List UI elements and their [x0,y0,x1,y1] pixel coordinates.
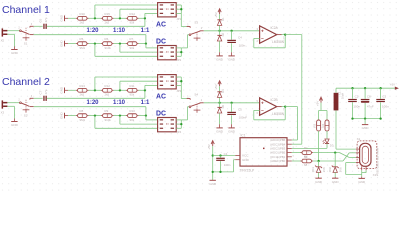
svg-text:GND: GND [60,86,64,94]
wire shield [361,170,363,176]
capacitor C3 100n [376,99,385,100]
wire [68,89,76,91]
wire [231,103,233,112]
svg-text:X1: X1 [357,137,361,141]
resistor R16 [76,17,78,19]
wire [176,84,181,86]
resistor R2 [300,160,302,162]
svg-text:GND: GND [362,126,370,130]
wire [334,172,336,177]
svg-text:47uF: 47uF [367,105,374,109]
wire down to ground [13,34,15,46]
capacitor C1 100n [216,158,225,159]
wire [114,43,126,45]
wire D- crossover [343,153,349,161]
svg-text:GND: GND [358,180,366,184]
svg-text:GND: GND [11,123,19,127]
svg-text:GND: GND [228,58,236,62]
wire AC to S3 [181,26,186,28]
svg-text:X3: X3 [1,111,5,115]
capacitor C5 100nF [227,112,236,113]
wire X2 pin2 to ground [7,33,14,35]
svg-text:9M1: 9M1 [80,118,86,122]
wire DC to S4 [188,106,190,108]
wire +5V rail [336,87,395,89]
resistor R1 [300,152,302,154]
svg-text:GND: GND [60,14,64,22]
svg-text:GND: GND [11,51,19,55]
svg-text:JP4: JP4 [176,130,181,134]
svg-text:LM358N: LM358N [272,112,285,116]
wire [176,119,181,121]
svg-text:ZD1: ZD1 [311,167,315,173]
wire DC up [187,107,189,120]
wire 1:20 to DC jumper [95,127,158,129]
svg-text:100n: 100n [224,163,231,167]
wire 1:10 to DC jumper [120,51,158,53]
wire ch1 output [285,34,302,36]
pin VCC [235,155,240,157]
capacitor C4 100n [227,40,236,41]
+5V supply (USB pull-up) [319,97,322,100]
svg-text:1:10: 1:10 [113,28,126,34]
node 1:1 (DC) [145,42,147,44]
wire down to ground [13,106,15,118]
wire C2 top [352,88,354,99]
junction op-amp output [284,105,286,107]
wire D+ crossover [340,153,350,158]
wire to ZD2 [334,153,336,167]
junction C5 tap [230,102,232,104]
junction C2 [351,87,353,89]
wire USB gnd [346,162,356,164]
node 1:20 (DC) [94,42,96,44]
wire 1:20 drop [94,116,96,129]
junction [351,117,353,119]
wire S4 to op-amp +in [204,102,260,104]
inductor L1 (ferrite) [334,93,339,111]
pin USB 162.6 [356,162,360,164]
wire DC up [187,35,189,48]
wire [219,98,221,103]
svg-text:X2: X2 [1,39,5,43]
switch S2 (input select) [20,102,22,104]
wire D- line [313,160,343,162]
wire +5V / gnd column [212,146,214,180]
capacitor C7 47p (AC coupling) [43,96,44,101]
svg-text:1:20: 1:20 [86,100,99,106]
wire [145,116,147,120]
wire [231,115,233,124]
wire LED cathode [326,144,328,149]
wire X3 pin2 to ground [7,105,14,107]
svg-text:C2: C2 [355,94,359,98]
wire to VCC [213,155,236,157]
wire feedback left [253,110,255,119]
wire feedback bottom [254,47,285,49]
wire 1:10 drop [119,116,121,125]
ground (AC ladder) [64,88,66,94]
svg-text:ZD2: ZD2 [328,167,332,173]
svg-text:10uH: 10uH [340,93,344,99]
wire [181,119,187,121]
svg-text:JP3: JP3 [176,89,181,93]
wire [176,127,181,129]
ground (clamp) [219,52,221,56]
pin USB 157.5 [356,157,360,159]
wire to IC GND pin [234,159,236,161]
wire down to DC ladder [145,107,147,116]
wire -in [254,109,260,111]
resistor R4 [325,120,329,131]
wire S2 AC throw to C7 [34,97,43,99]
svg-text:R7: R7 [130,37,134,41]
zener diode ZD2 3V6 [332,166,339,168]
wire S2 DC throw to DC node [34,106,146,108]
capacitor C6 47p (AC coupling) [43,24,44,29]
wire [231,31,233,40]
wire D+ line [313,152,339,154]
svg-text:3V6: 3V6 [339,167,343,172]
wire 1:10 riser [119,81,121,90]
junction C8 [364,87,366,89]
+5V supply (IC1) [211,141,214,144]
resistor R9 [101,115,103,117]
wire feedback left [253,38,255,47]
svg-text:S2: S2 [24,113,28,117]
svg-text:47p: 47p [44,17,48,22]
svg-text:R1: R1 [304,146,308,150]
wire [219,103,221,107]
wire [139,89,145,91]
svg-text:C6: C6 [38,18,42,22]
svg-text:1:10: 1:10 [113,100,126,106]
svg-text:R8: R8 [80,109,84,113]
op-amp IC2B LM358N [260,98,277,115]
junction op-amp output [284,33,286,35]
wire R3 to D- line [318,131,320,161]
svg-text:68: 68 [304,163,308,167]
wire [145,44,147,48]
wire 1:1 riser [144,13,146,18]
wire 1:20 riser [94,5,96,18]
wire C1 top [220,156,222,158]
svg-text:D2: D2 [221,32,225,36]
wire [176,123,181,125]
svg-text:GND: GND [315,180,323,184]
svg-text:S4: S4 [194,93,198,97]
capacitor C2 100n [348,99,357,100]
wire [176,8,181,10]
wire [219,113,221,124]
connector X1 (mini USB) [357,141,377,169]
wire LED to PB3 [292,147,327,149]
wire [114,89,126,91]
junction ZD1 [317,160,319,162]
svg-text:95k: 95k [130,21,135,25]
wire [176,47,181,49]
wire C8 top [364,88,366,99]
wire VBUS up to L1 [335,110,337,149]
resistor R13 [76,89,78,91]
svg-text:GND: GND [332,180,340,184]
resistor R11 [126,89,128,91]
wire [176,4,181,6]
svg-text:C1: C1 [224,152,228,156]
wire [68,115,76,117]
wire [219,31,221,35]
wire [219,26,221,31]
svg-text:R2: R2 [304,155,308,159]
capacitor C8 47uF [361,99,370,100]
svg-text:C7: C7 [38,90,42,94]
wire [318,172,320,177]
wire down to DC ladder [145,35,147,44]
node 1:20 (DC) [94,114,96,116]
svg-text:1:1: 1:1 [141,100,150,106]
wire gnd tie [213,171,234,173]
svg-text:910k: 910k [105,118,112,122]
grid dots [0,0,400,192]
svg-text:R15: R15 [105,12,111,16]
wire IC gnd down [233,160,235,172]
wire AC signal to 1:1 node [47,97,145,99]
junction C3 [379,87,381,89]
node 1:10 (DC) [119,42,121,44]
wire ch2 output [285,106,297,108]
wire [89,17,101,19]
junction gnd column [212,171,214,173]
ground (C5) [231,124,233,128]
svg-text:IC1: IC1 [241,134,246,138]
junction DC out [180,123,182,125]
pin (ADC0)PB5 [287,139,292,141]
svg-text:+5V: +5V [390,83,395,87]
wire [176,51,181,53]
pin USB shield [361,166,363,170]
wire 1:20 drop [94,44,96,57]
wire [139,115,146,117]
svg-text:(AREF)PB0: (AREF)PB0 [270,159,285,163]
svg-text:90k: 90k [130,118,135,122]
svg-text:TINY15LP: TINY15LP [240,169,255,173]
ground (AC ladder) [64,16,66,22]
pin GND [235,159,240,161]
svg-text:R5: R5 [80,37,84,41]
ground (input X2) [13,47,15,50]
svg-text:IC2A: IC2A [271,26,279,30]
IC U1 (IC1 ATtiny15) [240,138,287,166]
svg-text:JP2: JP2 [176,58,181,62]
wire output [282,34,286,36]
svg-text:GND: GND [60,111,64,119]
ground (DC ladder) [64,113,66,119]
junction clamp node [218,30,220,32]
wire [68,43,76,45]
wire riser to AC ladder [144,18,146,26]
svg-text:2k5: 2k5 [105,93,110,97]
wire 1:10 to DC jumper [120,123,158,125]
wire X2 pin1 to S1 [7,30,19,32]
wire [362,172,366,174]
wire R4 to LED [326,131,328,139]
wire feedback right [284,35,286,48]
wire C1 bottom [220,161,222,172]
wire ch1 output down to PB4 [301,35,303,145]
svg-text:GND: GND [228,130,236,134]
svg-text:D1: D1 [221,17,225,21]
resistor R12 [101,89,103,91]
wire [89,115,101,117]
svg-text:910k: 910k [105,46,112,50]
wire [176,12,181,14]
wire PB0 to R2 [292,160,302,162]
wire 1:10 to AC jumper [120,8,158,10]
pin (ADC3)PB4 [287,143,292,145]
wire PB2 to R1 [292,152,302,154]
wire to USB pin2 [349,152,356,154]
wire [89,43,101,45]
wire [139,17,145,19]
svg-text:R11: R11 [130,84,135,88]
pin (OC1E)PB1 [287,156,292,158]
+5V supply (clamp) [218,81,221,84]
node 1:10 (AC) [119,89,121,91]
svg-text:GND: GND [216,130,224,134]
svg-text:D3: D3 [330,143,334,147]
wire AC to S4 [181,98,186,100]
node 1:10 (DC) [119,114,121,116]
op-amp IC2A LM358N [260,26,277,43]
ground (IC1) [212,179,214,181]
svg-text:S3: S3 [194,21,198,25]
node 1:1 (DC) [145,114,147,116]
wire C2 bottom [352,102,354,118]
wire 1:10 to AC jumper [120,80,158,82]
svg-text:R9: R9 [105,109,109,113]
wire [176,55,181,57]
wire shield 2 [365,170,367,172]
jumper block JP1 (AC) [158,3,177,17]
ground (ZD1) [318,177,320,178]
svg-text:GND: GND [216,58,224,62]
wire to ZD1 [318,161,320,167]
resistor R8 [76,115,78,117]
svg-text:+5V: +5V [214,12,218,17]
svg-text:MINI-USB-32005-201: MINI-USB-32005-201 [376,148,380,174]
wire [139,43,146,45]
jumper block JP3 (AC) [158,75,177,89]
wire C3 top [380,88,382,99]
wire feedback right [284,107,286,120]
jumper block JP4 (DC) [158,118,177,132]
wire [364,119,366,125]
ground (USB) [361,177,363,179]
zener diode ZD1 3V6 [315,166,322,168]
wire 1:1 to DC jumper [146,47,158,49]
switch S3 (AC/DC select) [187,26,191,28]
wire [231,43,233,52]
ground (clamp) [219,124,221,128]
diode D1 [217,19,221,21]
node 1:20 (AC) [94,17,96,19]
svg-text:R3: R3 [312,123,316,127]
resistor R5 [76,43,78,45]
svg-text:IC2B: IC2B [271,98,278,102]
svg-text:100nF: 100nF [239,115,248,119]
svg-text:R4: R4 [321,123,325,127]
wire [68,17,76,19]
wire +5V down [320,103,322,111]
wire 1:10 drop [119,44,121,53]
svg-text:90k: 90k [130,46,135,50]
svg-text:DC: DC [156,111,166,118]
wire ch2 output down to PB5 [297,107,299,140]
wire C3 bottom [380,102,382,118]
pin USB 149.1 [356,148,360,150]
svg-text:JP1: JP1 [176,17,181,21]
wire X3 pin1 to S2 [7,102,19,104]
node 1:10 (AC) [119,17,121,19]
resistor R14 [126,17,128,19]
node 1:20 (AC) [94,89,96,91]
wire to R3 [318,111,320,120]
junction C1 top [219,154,221,156]
wire 1:1 to AC jumper [145,12,158,14]
svg-text:R10: R10 [130,109,136,113]
svg-text:D4: D4 [221,89,225,93]
junction AC out [180,8,182,10]
wire 1:20 to AC jumper [95,4,158,6]
wire [219,86,221,91]
switch S1 (input select) [20,30,22,32]
wire VBUS [336,148,356,150]
svg-text:R16: R16 [80,12,86,16]
junction DC out [180,51,182,53]
svg-text:47p: 47p [44,89,48,94]
wire gnd rail [353,118,381,120]
wire 1:1 riser [144,85,146,90]
svg-text:+5V: +5V [315,101,319,106]
wire to PB5 [292,139,298,141]
svg-text:95k: 95k [130,93,135,97]
wire L1 to +5V rail [335,88,337,93]
svg-text:100n: 100n [382,105,389,109]
svg-text:Channel 1: Channel 1 [2,4,50,16]
svg-text:Channel 2: Channel 2 [2,76,50,88]
junction C1 gnd [219,171,221,173]
wire feedback bottom [254,119,285,121]
pin (ADC1)PB2 [287,152,292,154]
wire 1:1 to AC jumper [145,84,158,86]
svg-text:100n: 100n [353,105,360,109]
ground (filter) [364,123,366,125]
resistor R7 [126,43,128,45]
wire AC jumper common down [180,5,182,27]
wire 1:1 to DC jumper [146,119,158,121]
node 1:1 (AC) [144,17,146,19]
diode D5 [217,106,221,108]
wire S1 DC throw to DC node [34,34,146,36]
node 1:1 (AC) [144,89,146,91]
svg-text:DC: DC [156,39,166,46]
pin USB 152.8 [356,152,360,154]
wire split [319,110,327,112]
wire DC jumper common [180,48,182,56]
wire USB gnd down [345,163,347,175]
wire to USB pin3 [349,157,356,159]
junction clamp node [218,102,220,104]
